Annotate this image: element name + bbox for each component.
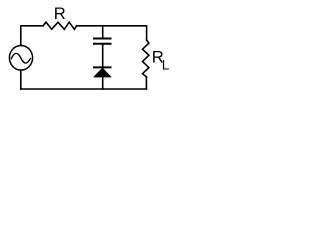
wire: capacitor to diode: [102, 44, 104, 67]
capacitor C top plate: [94, 38, 111, 40]
ac source V1: [9, 46, 32, 71]
diode D triangle (anode, pointing up): [94, 68, 111, 77]
wire: top-left horizontal (corner to resistor R): [21, 25, 43, 27]
wire: top horizontal (resistor R to top-right corner): [77, 25, 147, 27]
wire: right vertical top (top-right corner to R_L): [146, 26, 148, 40]
wire: left vertical bottom (source bottom to bottom-left corner): [20, 70, 22, 89]
svg-text:L: L: [162, 58, 170, 73]
resistor R_L: [143, 40, 149, 77]
wire: capacitor branch upper: [102, 26, 104, 38]
wire: right vertical bottom (R_L to bottom-right corner): [145, 77, 147, 89]
wire: left vertical top (source top to top-left corner): [20, 26, 22, 46]
capacitor C bottom plate: [94, 43, 111, 45]
diode D cathode bar: [94, 66, 111, 68]
wire: bottom horizontal: [21, 88, 147, 90]
svg-text:R: R: [54, 4, 66, 23]
wire: diode to bottom wire: [102, 77, 104, 89]
resistor R: [43, 22, 77, 29]
sine wave inside source: [11, 53, 30, 63]
